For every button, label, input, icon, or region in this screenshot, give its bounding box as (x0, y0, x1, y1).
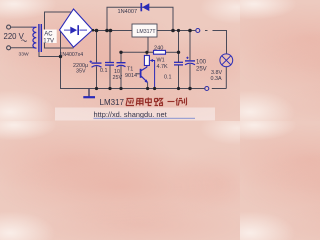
svg-text:T1: T1 (127, 66, 133, 72)
svg-text:17V: 17V (43, 38, 54, 44)
svg-text:9014: 9014 (125, 73, 137, 79)
svg-text:33W: 33W (19, 51, 29, 57)
svg-text:1N4007: 1N4007 (118, 9, 138, 15)
svg-text:LM317: LM317 (100, 98, 125, 107)
svg-text:AC: AC (44, 32, 53, 38)
svg-text:1N4007x4: 1N4007x4 (60, 52, 84, 58)
svg-text:http://xd. shangdu. net: http://xd. shangdu. net (94, 110, 167, 119)
svg-text:25V: 25V (113, 75, 123, 81)
svg-text:220 V: 220 V (4, 32, 25, 41)
svg-text:LM317T: LM317T (137, 29, 157, 35)
svg-text:10: 10 (114, 69, 120, 75)
svg-text:0.1: 0.1 (164, 75, 172, 81)
svg-text:0.3A: 0.3A (211, 76, 222, 82)
svg-text:35V: 35V (76, 68, 86, 74)
svg-text:0.1: 0.1 (100, 68, 108, 74)
svg-text:100: 100 (196, 60, 207, 66)
svg-text:4.7K: 4.7K (157, 64, 168, 70)
svg-text:240: 240 (154, 46, 163, 52)
svg-text:25V: 25V (196, 67, 207, 73)
svg-text:W1: W1 (157, 57, 165, 63)
